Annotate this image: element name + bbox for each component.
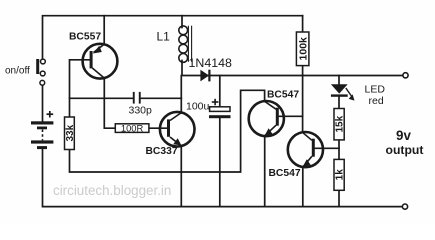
svg-text:100u: 100u — [186, 101, 210, 113]
svg-text:L1: L1 — [157, 30, 171, 44]
svg-text:red: red — [369, 95, 384, 107]
svg-text:9v: 9v — [396, 128, 411, 143]
svg-text:1N4148: 1N4148 — [189, 56, 233, 70]
svg-text:100k: 100k — [297, 37, 309, 61]
svg-text:BC547: BC547 — [269, 168, 301, 179]
svg-text:BC557: BC557 — [69, 32, 101, 43]
svg-text:100R: 100R — [121, 122, 144, 133]
svg-text:on/off: on/off — [5, 66, 30, 77]
svg-text:330p: 330p — [129, 105, 153, 117]
svg-text:BC547: BC547 — [267, 90, 299, 101]
svg-text:1k: 1k — [335, 169, 346, 181]
svg-text:BC337: BC337 — [146, 146, 178, 157]
svg-text:circiutech.blogger.in: circiutech.blogger.in — [53, 183, 171, 198]
svg-text:33k: 33k — [65, 124, 76, 141]
svg-text:output: output — [386, 143, 424, 157]
svg-text:15k: 15k — [335, 115, 346, 132]
svg-text:LED: LED — [365, 84, 386, 96]
